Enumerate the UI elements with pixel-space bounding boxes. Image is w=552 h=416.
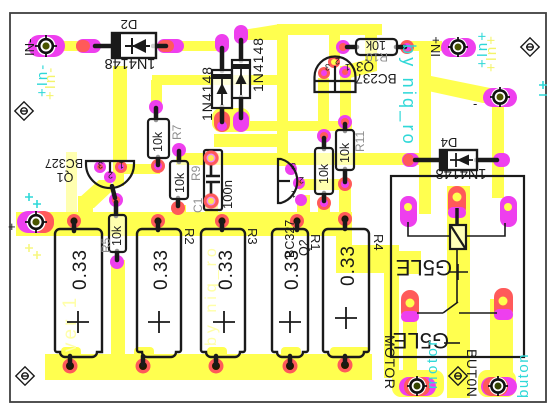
svg-text:MOTOR: MOTOR — [382, 335, 398, 389]
svg-text:IN+: IN+ — [428, 36, 443, 57]
svg-text:Q1: Q1 — [57, 170, 74, 184]
svg-text:R11: R11 — [353, 131, 367, 152]
svg-text:2: 2 — [299, 175, 304, 185]
svg-text:10k: 10k — [338, 142, 352, 163]
svg-text:-: - — [473, 96, 477, 111]
svg-text:1: 1 — [291, 189, 296, 199]
svg-text:motor: motor — [424, 338, 441, 389]
svg-text:0.33: 0.33 — [151, 249, 172, 290]
svg-text:10k: 10k — [365, 38, 386, 52]
svg-text:C1: C1 — [191, 197, 205, 213]
svg-text:10k: 10k — [317, 163, 331, 184]
svg-text:10k: 10k — [151, 131, 165, 152]
svg-text:100n: 100n — [220, 180, 235, 209]
svg-text:BC237: BC237 — [355, 71, 396, 86]
svg-text:R3: R3 — [245, 228, 260, 245]
svg-text:+: + — [8, 219, 16, 234]
svg-text:1N4148: 1N4148 — [250, 37, 266, 92]
svg-text:R2: R2 — [182, 228, 197, 245]
svg-text:D2: D2 — [121, 17, 138, 32]
svg-text:1N4148: 1N4148 — [199, 66, 215, 121]
svg-text:0.33: 0.33 — [282, 249, 303, 290]
svg-text:1N4148: 1N4148 — [436, 165, 487, 181]
svg-text:1: 1 — [119, 160, 124, 170]
svg-text:R10: R10 — [366, 50, 388, 64]
svg-text:D4: D4 — [441, 135, 458, 150]
svg-text:0.33: 0.33 — [216, 249, 237, 290]
svg-text:G5LE: G5LE — [396, 255, 452, 280]
svg-text:R5: R5 — [99, 237, 113, 253]
svg-text:BC327: BC327 — [45, 156, 83, 170]
svg-text:BUT0N: BUT0N — [464, 349, 480, 397]
svg-text:0.33: 0.33 — [338, 245, 359, 286]
svg-text:2: 2 — [108, 170, 113, 180]
svg-text:buton: buton — [515, 353, 532, 398]
svg-text:3: 3 — [325, 62, 330, 72]
svg-text:IN-: IN- — [22, 39, 37, 56]
svg-text:1: 1 — [345, 62, 350, 72]
svg-text:by niq_ro: by niq_ro — [398, 44, 419, 147]
svg-text:R1: R1 — [308, 234, 323, 251]
svg-text:2: 2 — [335, 56, 340, 66]
svg-text:R9: R9 — [189, 165, 203, 181]
svg-text:R7: R7 — [170, 124, 184, 140]
svg-text:3: 3 — [291, 161, 296, 171]
svg-text:0.33: 0.33 — [70, 249, 91, 290]
svg-text:+In-: +In- — [42, 66, 59, 100]
svg-text:3: 3 — [98, 160, 103, 170]
svg-text:10k: 10k — [173, 172, 187, 193]
svg-text:+In+: +In+ — [483, 34, 500, 72]
svg-text:R4: R4 — [371, 234, 386, 251]
svg-text:1N4148: 1N4148 — [105, 55, 156, 71]
